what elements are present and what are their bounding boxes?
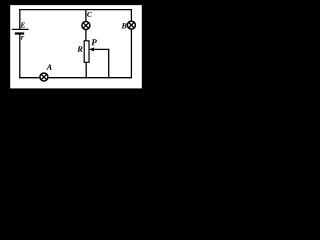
label E: [20, 23, 25, 28]
lamp B: [127, 21, 135, 29]
wire right upper: [130, 9, 132, 22]
lamp A: [40, 73, 48, 81]
wire bottom left segment: [19, 77, 40, 79]
wire middle branch upper: [85, 9, 87, 22]
label P: [91, 39, 97, 45]
label R: [77, 46, 82, 51]
label B: [121, 23, 126, 28]
label A: [46, 64, 52, 70]
wire left lower: [19, 34, 21, 79]
label C: [87, 12, 92, 17]
wiper arrowhead P: [89, 47, 94, 51]
label r: [21, 36, 24, 40]
lamp C: [82, 22, 90, 30]
wire middle branch lower: [85, 62, 87, 78]
resistor R box: [84, 41, 89, 63]
wire left upper: [19, 9, 21, 29]
wire top rail: [19, 9, 132, 11]
wire middle branch between lamp C and resistor: [85, 29, 87, 41]
wire bottom middle segment: [48, 77, 132, 79]
wire wiper horizontal: [91, 48, 109, 50]
wire right lower: [130, 29, 132, 78]
battery E,r positive plate: [12, 28, 29, 30]
battery E,r negative plate: [15, 32, 24, 34]
wire wiper vertical: [108, 49, 110, 78]
